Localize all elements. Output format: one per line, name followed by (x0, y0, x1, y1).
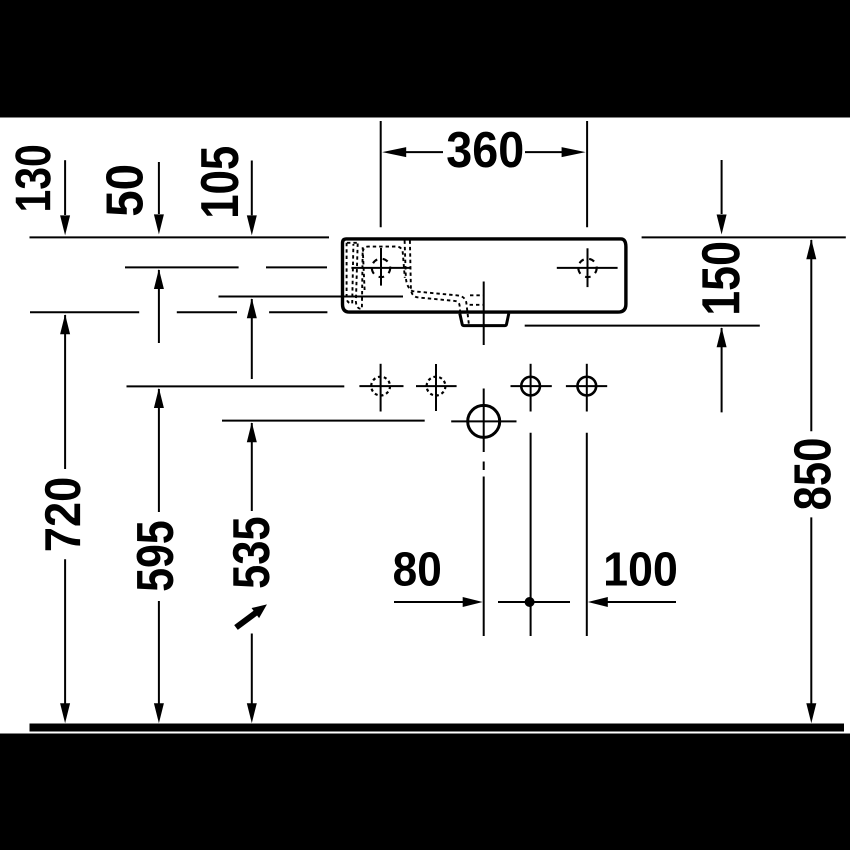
dim 50 down arrow (154, 214, 164, 234)
dim 105 down arrow (247, 215, 257, 235)
hidden overflow channel dotted U 1 (347, 243, 354, 304)
595 level line (127, 385, 345, 387)
top black banner (0, 0, 850, 118)
dimension text 130 (15, 146, 51, 210)
dim 850 line upper segment (810, 240, 812, 431)
hidden bowl outer surface dotted contour (410, 241, 460, 313)
fixing hole 3 extension line (530, 433, 532, 636)
hidden overflow channel dotted U 2 (356, 244, 363, 309)
dim 850 line lower segment (810, 517, 812, 718)
drain outlet circle (468, 405, 500, 437)
130 level line segment 3 (269, 311, 327, 313)
fixing hole 2 dotted circle (427, 377, 446, 396)
dim 50 up arrow (154, 269, 164, 289)
dim 50 upper extension line (158, 162, 160, 214)
dim 360 line left part (405, 151, 443, 153)
fixing hole 1 horizontal centerline (359, 385, 403, 387)
dim 595 down arrow at floor (154, 703, 164, 723)
105 level line (219, 296, 404, 298)
fixing hole 3 vertical centerline (530, 364, 532, 412)
hidden drain dotted ledge lower (470, 304, 483, 306)
dim 80 right arrow (463, 597, 483, 607)
535 level line (222, 420, 425, 422)
hidden bowl rim dotted contour (363, 247, 405, 291)
130 level line segment 2 (177, 311, 237, 313)
dimension text 50 (106, 166, 143, 215)
dim 720 down arrow at floor (60, 703, 70, 723)
dim 105 lower tail (251, 299, 253, 379)
dim 720 line upper segment (64, 315, 66, 469)
dimension text 100 (606, 552, 676, 586)
washbasin outline side profile (343, 239, 626, 312)
drain circle horizontal centerline (451, 420, 516, 422)
dimension text 105 (201, 147, 239, 216)
left tap hole dashed circle (372, 259, 390, 277)
dim 50 lower tail (158, 270, 160, 343)
dim 850 up arrow (806, 239, 816, 259)
fixing hole 1 vertical centerline (380, 364, 382, 412)
hidden bowl inner surface dotted contour (405, 241, 469, 325)
dim 850 down arrow at floor (806, 703, 816, 723)
dim 130 down arrow (60, 215, 70, 235)
dim 150 up arrow (717, 327, 727, 347)
dim 360 right extension line (586, 121, 588, 227)
hidden drain dotted ledge upper (470, 294, 483, 296)
fixing hole 3 horizontal centerline (511, 385, 552, 387)
50 level line left segment (125, 266, 239, 268)
drain centerline segment through outlet (483, 282, 485, 346)
dimension text 535 (233, 518, 270, 588)
fixing hole 2 horizontal centerline (416, 385, 457, 387)
right tap hole vertical centerline (587, 248, 589, 287)
150 level line below basin (525, 325, 760, 327)
dim 150 upper extension line (721, 160, 723, 214)
dim 105 up arrow (247, 298, 257, 318)
drain centerline short dash (483, 462, 485, 471)
dim 360 line right part (525, 151, 563, 153)
dim 720 up arrow (60, 314, 70, 334)
right tap hole dashed circle (578, 259, 596, 277)
dim 595 line upper segment (158, 389, 160, 512)
drain centerline segment through circle (483, 389, 485, 453)
bottom black banner (0, 734, 850, 850)
dim 535 line upper segment (251, 423, 253, 511)
130 level line segment 1 (30, 311, 139, 313)
dimension text 595 (137, 522, 174, 591)
dim 360 left extension line (380, 121, 382, 227)
dimension text 150 (702, 243, 740, 313)
fixing hole 4 vertical centerline (586, 364, 588, 412)
bold pointer arrow pointing north-east (232, 599, 270, 632)
fixing hole 3 solid circle (521, 377, 540, 396)
50 level line right segment (266, 266, 327, 268)
dim 130 upper extension line (64, 160, 66, 215)
dimension text 850 (794, 439, 831, 509)
dim reference dot (525, 597, 535, 607)
hidden rim dotted top edge (347, 242, 359, 244)
floor bar (30, 724, 845, 732)
right tap hole horizontal centerline (557, 267, 618, 269)
drain centerline lower segment (483, 477, 485, 637)
wall top reference line right segment (850 level) (642, 236, 846, 238)
dimension text 360 (447, 132, 522, 168)
dim 100 left arrow (588, 597, 608, 607)
wall top reference line left segment (850 level) (30, 236, 330, 238)
dim 535 line lower segment (251, 634, 253, 719)
left tap hole vertical centerline (380, 248, 382, 286)
dim 535 up arrow (247, 422, 257, 442)
dim 360 right arrow (562, 147, 586, 157)
left tap hole horizontal centerline (351, 267, 410, 269)
fixing hole 4 extension line (586, 433, 588, 636)
dim 535 down arrow at floor (247, 703, 257, 723)
dim 100 leader line (607, 601, 676, 603)
fixing hole 4 solid circle (577, 377, 596, 396)
dim 720 line lower segment (64, 559, 66, 718)
fixing hole 2 vertical centerline (435, 364, 437, 411)
dim line between dot and holes (498, 601, 570, 603)
dim 105 upper extension line (251, 161, 253, 216)
dim 150 down arrow (717, 215, 727, 235)
dim 360 left arrow (382, 147, 406, 157)
dim 595 up arrow (154, 388, 164, 408)
dimension text 80 (394, 552, 440, 586)
fixing hole 1 dotted circle (371, 377, 390, 396)
fixing hole 4 horizontal centerline (566, 385, 607, 387)
dim 80 leader line (394, 601, 463, 603)
dimension text 720 (45, 479, 81, 551)
dim 150 lower tail (721, 328, 723, 412)
drain outlet trapezoid under basin (460, 314, 509, 326)
dim 595 line lower segment (158, 601, 160, 718)
